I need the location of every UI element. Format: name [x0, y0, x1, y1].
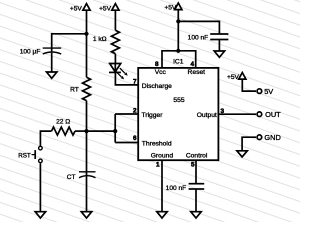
wire +5V P2 to resistor R1	[114, 10, 116, 30]
wire R1 to LED D1	[114, 54, 116, 64]
capacitor CT	[67, 172, 96, 181]
wire LED to pin 7	[115, 72, 138, 85]
svg-text:CT: CT	[67, 174, 76, 181]
wire pin 3 Output to OUT terminal	[218, 113, 256, 115]
power +5V P3	[164, 3, 182, 12]
ground GND terminal	[237, 151, 247, 157]
wire RST to ground	[39, 163, 41, 212]
junction trigger branch	[113, 129, 117, 133]
wire pin 5 Control to capacitor C3	[195, 160, 197, 183]
wire RT to trigger node	[86, 101, 88, 132]
wire node to capacitor CT	[86, 131, 88, 176]
wire C3 to ground	[195, 190, 197, 212]
ground CT	[81, 212, 91, 218]
svg-text:Reset: Reset	[188, 69, 206, 76]
wire Vcc-Reset bridge	[162, 51, 196, 68]
svg-text:RST: RST	[18, 152, 31, 159]
svg-text:OUT: OUT	[265, 110, 281, 119]
junction C2 branch	[176, 19, 180, 23]
svg-text:Trigger: Trigger	[142, 112, 164, 119]
svg-text:1: 1	[156, 162, 160, 169]
wire +5V P3 to Vcc bridge	[177, 10, 179, 51]
svg-text:6: 6	[133, 135, 137, 142]
svg-text:555: 555	[173, 97, 184, 104]
svg-text:Discharge: Discharge	[142, 83, 172, 90]
ground pin 1	[157, 212, 167, 218]
wire trigger node	[87, 130, 116, 132]
ground RST	[35, 212, 45, 218]
power +5V P4	[227, 73, 246, 81]
capacitor C1 100 uF	[20, 48, 61, 56]
LED D1	[109, 64, 128, 80]
wire to pin 6 Threshold	[115, 142, 138, 144]
power +5V P2	[99, 4, 119, 13]
wire C2 to ground	[218, 40, 220, 51]
svg-text:5V: 5V	[264, 87, 273, 96]
svg-text:Threshold: Threshold	[142, 140, 172, 147]
svg-text:+5V: +5V	[164, 5, 177, 12]
wire +5V P1 to resistor RT	[86, 10, 88, 77]
wire R2 to RST switch	[40, 131, 51, 146]
svg-text:Control: Control	[186, 153, 208, 160]
svg-text:IC1: IC1	[173, 59, 184, 66]
terminal OUT	[257, 110, 281, 119]
ground C3	[191, 212, 201, 218]
wire GND terminal to ground	[242, 137, 256, 151]
svg-text:100 µF: 100 µF	[20, 49, 41, 56]
resistor RT	[70, 77, 90, 100]
terminal GND	[257, 133, 281, 142]
svg-text:GND: GND	[264, 133, 280, 142]
wire CT to ground	[86, 177, 88, 212]
wire node to capacitor C2	[178, 21, 219, 33]
capacitor C2 100 nF	[188, 34, 229, 42]
capacitor C3 100 nF	[166, 184, 205, 192]
ground C2	[214, 51, 224, 57]
svg-text:Ground: Ground	[151, 153, 174, 160]
svg-text:1 kΩ: 1 kΩ	[93, 36, 107, 43]
svg-text:5: 5	[191, 162, 195, 169]
resistor R2 22 Ohm	[52, 118, 76, 135]
svg-text:7: 7	[133, 79, 137, 86]
pushbutton RST	[18, 146, 42, 162]
terminal 5V	[257, 87, 273, 96]
svg-text:+5V: +5V	[99, 5, 112, 12]
svg-text:100 nF: 100 nF	[166, 185, 187, 192]
wire pin 1 Ground to ground	[161, 160, 163, 212]
svg-text:22 Ω: 22 Ω	[56, 118, 70, 125]
resistor R1 1 kOhm	[93, 30, 120, 53]
junction RT / R2 / CT	[84, 129, 88, 133]
junction C1 branch	[84, 32, 88, 36]
svg-text:+5V: +5V	[70, 5, 83, 12]
wire C1 to ground	[51, 53, 53, 72]
wire R2 to junction	[75, 130, 87, 132]
wire trigger-threshold vertical	[114, 114, 116, 143]
junction Vcc bridge	[176, 49, 180, 53]
svg-text:Vcc: Vcc	[155, 69, 167, 76]
power +5V P1	[70, 4, 90, 13]
svg-text:Output: Output	[197, 112, 217, 119]
svg-text:RT: RT	[70, 86, 79, 93]
wire +5V P4 to 5V terminal	[242, 79, 256, 91]
wire node to capacitor C1	[52, 34, 87, 53]
svg-text:100 nF: 100 nF	[188, 35, 209, 42]
ground C1	[47, 72, 57, 78]
svg-text:+5V: +5V	[227, 74, 240, 81]
IC IC1 555 body	[138, 68, 218, 160]
wire to pin 2 Trigger	[115, 113, 138, 115]
